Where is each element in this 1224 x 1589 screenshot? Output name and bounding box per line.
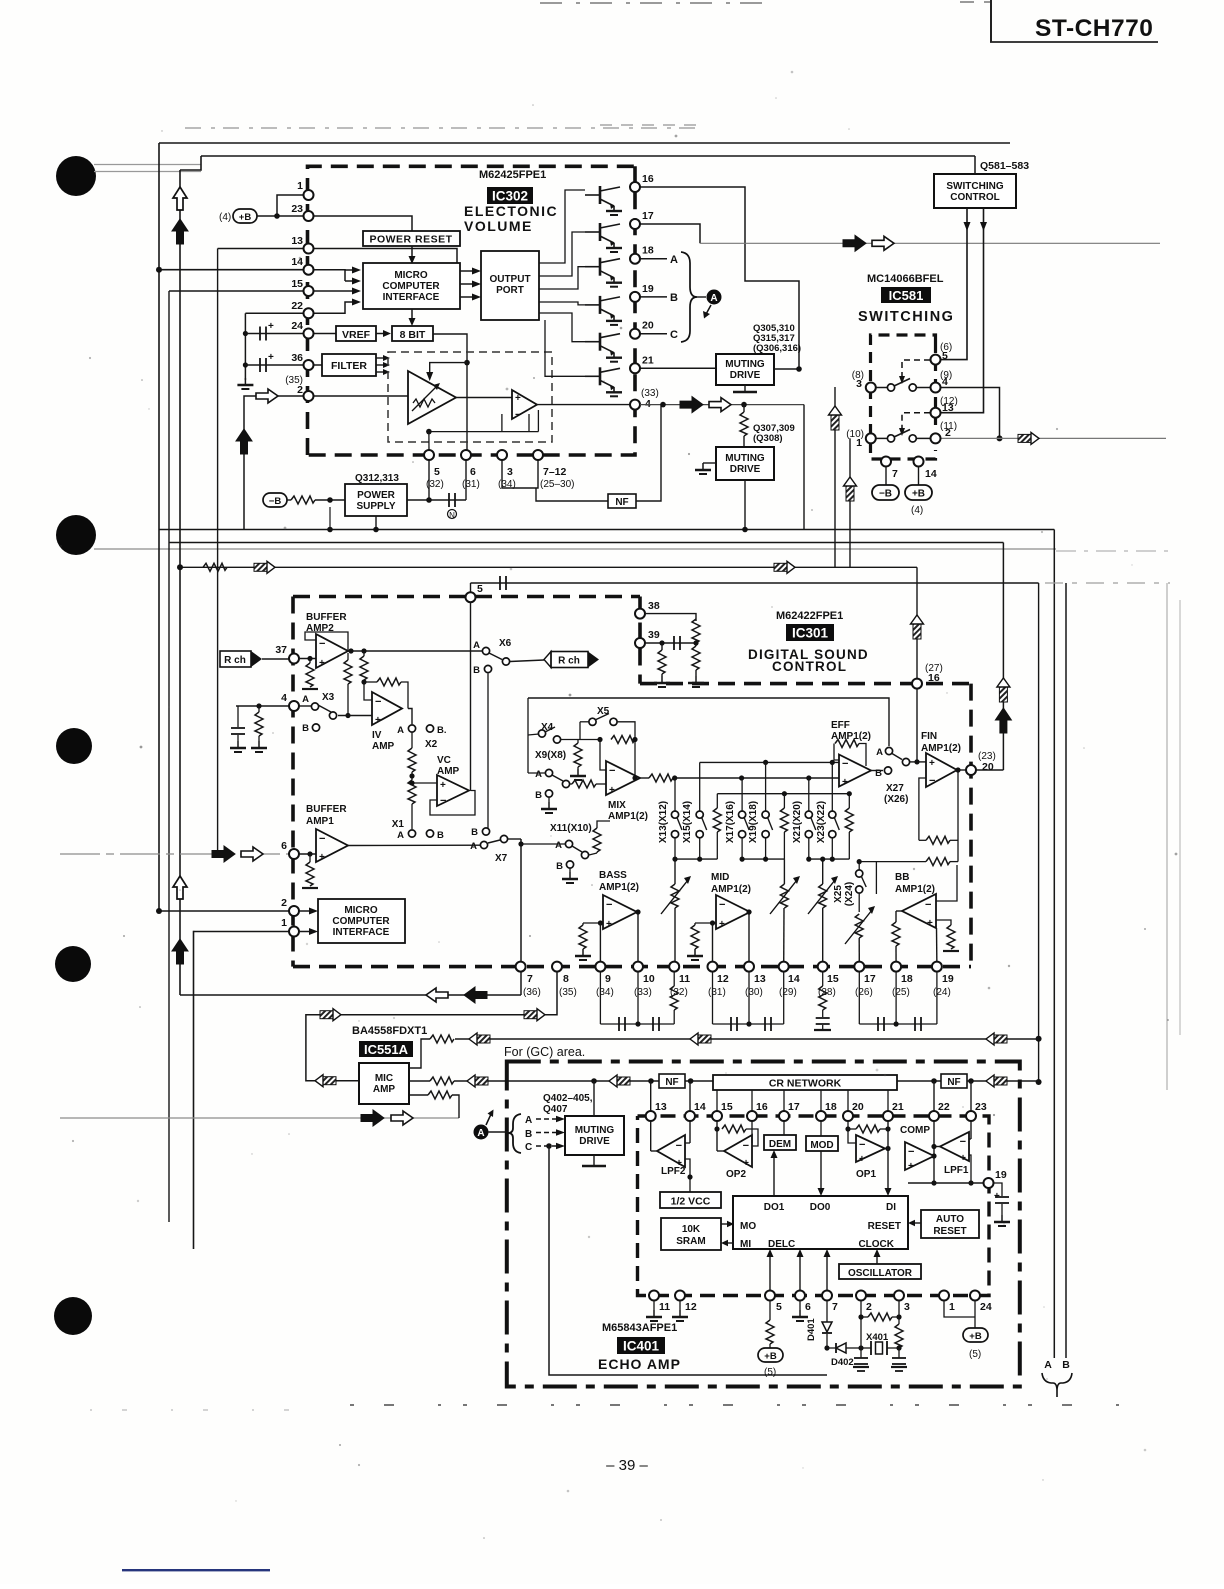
MUTING DRIVE 2 box bbox=[716, 447, 774, 480]
svg-text:7: 7 bbox=[527, 973, 533, 985]
svg-text:+: + bbox=[268, 321, 274, 332]
title rule horizontal bbox=[990, 41, 1158, 43]
svg-text:8 BIT: 8 BIT bbox=[400, 329, 426, 341]
svg-text:24: 24 bbox=[980, 1301, 992, 1313]
svg-text:6: 6 bbox=[805, 1301, 811, 1313]
svg-text:8: 8 bbox=[563, 973, 569, 985]
pin 7-12(25-30) bbox=[533, 450, 543, 460]
svg-text:(35): (35) bbox=[559, 987, 577, 998]
svg-text:Q407: Q407 bbox=[543, 1104, 568, 1115]
pin39 net cap and resistor bbox=[645, 642, 696, 644]
wire amp1 to amp2 bbox=[456, 397, 512, 399]
svg-text:VC: VC bbox=[437, 755, 451, 766]
svg-text:+: + bbox=[515, 393, 521, 404]
power supply to caps wire bbox=[407, 499, 466, 501]
under network group C bbox=[858, 972, 860, 1024]
power supply bottom to bus bbox=[375, 516, 377, 530]
pin 1 wire bbox=[194, 931, 290, 933]
variable resistor to pin 17 bbox=[855, 914, 863, 938]
group bus 2 bbox=[742, 858, 784, 860]
svg-text:LPF1: LPF1 bbox=[944, 1165, 969, 1176]
filter arrows bbox=[376, 357, 383, 359]
EFF amp bbox=[839, 755, 871, 787]
svg-text:MICRO: MICRO bbox=[394, 270, 428, 281]
pin 14 wire right with split arrows bbox=[309, 270, 346, 281]
svg-text:D401: D401 bbox=[806, 1318, 817, 1341]
OP2 output to pin15 bbox=[717, 1150, 724, 1152]
sram arrows bbox=[721, 1223, 727, 1225]
svg-text:7: 7 bbox=[832, 1301, 838, 1313]
AUTO RESET box bbox=[921, 1210, 979, 1238]
svg-text:MID: MID bbox=[711, 872, 729, 883]
svg-text:+: + bbox=[375, 715, 381, 726]
buffer amp2 bbox=[316, 634, 348, 668]
svg-text:BB: BB bbox=[895, 872, 909, 883]
svg-text:IC551A: IC551A bbox=[364, 1042, 409, 1057]
pin 13 wire right into micro bbox=[309, 249, 458, 264]
svg-text:19: 19 bbox=[942, 973, 954, 985]
svg-text:IC302: IC302 bbox=[492, 189, 528, 204]
svg-text:A: A bbox=[710, 293, 717, 304]
svg-text:−: − bbox=[960, 1136, 966, 1148]
EFF feedback resistor bbox=[834, 744, 839, 761]
X7 out to pin7 rail bbox=[508, 838, 521, 840]
svg-text:24: 24 bbox=[291, 320, 303, 332]
group bus 3 bbox=[809, 858, 850, 860]
svg-text:VREF: VREF bbox=[342, 329, 371, 341]
pin 3(34) bbox=[497, 450, 507, 460]
arrow hatched up x917 bbox=[911, 615, 924, 639]
-B oval bbox=[263, 493, 287, 507]
svg-text:+: + bbox=[743, 1158, 749, 1169]
svg-text:+B: +B bbox=[239, 212, 252, 223]
pin 18 wire A bbox=[640, 258, 667, 260]
svg-text:B.: B. bbox=[437, 725, 447, 736]
svg-text:M62422FPE1: M62422FPE1 bbox=[776, 610, 843, 622]
svg-text:38: 38 bbox=[648, 600, 660, 612]
svg-text:– 39 –: – 39 – bbox=[606, 1457, 648, 1474]
svg-text:5: 5 bbox=[477, 583, 483, 595]
under network group B bbox=[712, 972, 714, 1024]
svg-text:D402: D402 bbox=[831, 1357, 854, 1368]
resistor below pin3 bbox=[898, 1300, 900, 1324]
svg-text:X11(X10): X11(X10) bbox=[550, 823, 592, 834]
pin (23)20 bbox=[966, 765, 976, 775]
svg-text:19: 19 bbox=[995, 1169, 1007, 1181]
svg-text:+B: +B bbox=[764, 1351, 777, 1362]
svg-text:9: 9 bbox=[605, 973, 611, 985]
svg-text:DRIVE: DRIVE bbox=[730, 370, 761, 381]
pin 36 to FILTER bbox=[309, 364, 323, 366]
svg-text:MIC: MIC bbox=[375, 1073, 393, 1084]
svg-text:M62425FPE1: M62425FPE1 bbox=[479, 169, 546, 181]
pin14 vertical bbox=[689, 1081, 691, 1143]
svg-text:BASS: BASS bbox=[599, 870, 627, 881]
svg-text:MUTING: MUTING bbox=[575, 1125, 615, 1136]
node A circle bbox=[474, 1125, 489, 1140]
top bypass wire y698 to X27A bbox=[528, 698, 889, 746]
IC401 outer dash-dot box bbox=[507, 1062, 1020, 1387]
svg-text:IC581: IC581 bbox=[889, 288, 924, 303]
MIC AMP box bbox=[359, 1063, 409, 1104]
svg-text:2: 2 bbox=[297, 384, 303, 396]
vertical x804 to bus bbox=[803, 405, 805, 530]
amp1 out to X7 bbox=[348, 844, 480, 846]
svg-text:X9(X8): X9(X8) bbox=[535, 750, 566, 761]
wire bus y529.5 bbox=[159, 529, 1054, 531]
resistor below amp2 + bbox=[309, 659, 311, 664]
svg-text:+: + bbox=[268, 352, 274, 363]
svg-text:COMPUTER: COMPUTER bbox=[332, 916, 390, 927]
switch col X23(X22) bbox=[816, 762, 839, 859]
svg-text:INTERFACE: INTERFACE bbox=[333, 927, 390, 938]
pin 7(36) bbox=[516, 962, 526, 972]
svg-text:OUTPUT: OUTPUT bbox=[489, 274, 530, 285]
feedback resistor chain to X3 bbox=[347, 653, 349, 660]
transistor Q 17 bbox=[585, 223, 622, 252]
svg-text:PORT: PORT bbox=[496, 285, 524, 296]
svg-text:AMP1(2): AMP1(2) bbox=[608, 811, 648, 822]
svg-text:SWITCHING: SWITCHING bbox=[858, 309, 954, 325]
svg-text:10K: 10K bbox=[682, 1224, 701, 1235]
arrow filled up on rail x180 top bbox=[172, 219, 188, 244]
svg-text:AMP1(2): AMP1(2) bbox=[895, 884, 935, 895]
svg-text:16: 16 bbox=[756, 1101, 768, 1113]
svg-text:A: A bbox=[535, 769, 542, 780]
svg-text:5: 5 bbox=[434, 466, 440, 478]
mic amp top feedback loop resistor bbox=[409, 1039, 430, 1068]
svg-text:13: 13 bbox=[291, 235, 303, 247]
switch col X15(X14) bbox=[682, 762, 707, 859]
grey bus y243 bbox=[700, 242, 1160, 244]
svg-text:+: + bbox=[927, 918, 933, 929]
svg-text:(26): (26) bbox=[855, 987, 873, 998]
MIX feedback resistor bbox=[611, 736, 635, 744]
svg-text:COMP: COMP bbox=[900, 1125, 930, 1136]
pin 1 bbox=[866, 433, 876, 443]
svg-text:(4): (4) bbox=[219, 212, 231, 223]
BB feedback bbox=[936, 865, 957, 901]
pin 22 wire right up arrow bbox=[309, 302, 353, 313]
transistor Q 21 bbox=[585, 367, 622, 396]
IC401 black tag bbox=[617, 1337, 665, 1354]
NF box bbox=[608, 494, 636, 508]
wire to MIX minus bbox=[578, 739, 600, 741]
svg-text:B: B bbox=[1062, 1359, 1070, 1371]
IC302 left pins bbox=[304, 190, 314, 200]
svg-text:X19(X18): X19(X18) bbox=[748, 801, 759, 843]
svg-text:A: A bbox=[525, 1115, 532, 1126]
pin 13 wire left bbox=[218, 248, 309, 250]
wire inner frame corner bbox=[180, 156, 201, 170]
OP1 out to pin21 bbox=[885, 1148, 888, 1150]
svg-text:BUFFER: BUFFER bbox=[306, 804, 347, 815]
VC feedback bbox=[430, 791, 475, 816]
svg-text:13: 13 bbox=[942, 402, 954, 414]
svg-text:B: B bbox=[473, 665, 480, 676]
pin4 out net bbox=[640, 404, 804, 406]
svg-text:B: B bbox=[670, 292, 678, 304]
IC302 right pins bbox=[630, 182, 640, 192]
svg-text:DO1: DO1 bbox=[764, 1202, 785, 1213]
svg-text:(36): (36) bbox=[523, 987, 541, 998]
svg-text:MUTING: MUTING bbox=[725, 359, 765, 370]
pin20 into OP1 bbox=[848, 1112, 856, 1143]
punch dot 4 bbox=[55, 946, 91, 982]
grounds pins 11 12 6 bbox=[653, 1300, 655, 1310]
cap rail vertical x245 bbox=[244, 313, 246, 380]
svg-text:BUFFER: BUFFER bbox=[306, 612, 347, 623]
junction dot bbox=[1036, 1079, 1042, 1085]
svg-text:DRIVE: DRIVE bbox=[730, 464, 761, 475]
arrow hatched up on x1003 bbox=[997, 678, 1010, 702]
pin13 vertical bbox=[650, 1081, 652, 1151]
svg-text:MC14066BFEL: MC14066BFEL bbox=[867, 273, 944, 285]
punch dot 1 bbox=[56, 156, 96, 196]
IV out to X2 bbox=[408, 709, 412, 725]
DEM box bbox=[764, 1135, 796, 1150]
bus line lower y793.7 bbox=[717, 793, 849, 795]
pin 16 net bbox=[640, 187, 799, 369]
svg-text:12: 12 bbox=[717, 973, 729, 985]
svg-text:X2: X2 bbox=[425, 739, 438, 750]
bottom pin stubs bbox=[428, 455, 430, 500]
buffer amp2 feedback loop bbox=[305, 632, 348, 651]
svg-text:21: 21 bbox=[642, 354, 654, 366]
svg-text:A: A bbox=[1044, 1359, 1052, 1371]
svg-text:AMP1(2): AMP1(2) bbox=[711, 884, 751, 895]
svg-text:AMP: AMP bbox=[437, 766, 460, 777]
wire outer frame left vertical bbox=[158, 143, 160, 912]
arrow filled up on x1003 bbox=[995, 708, 1011, 733]
svg-text:A: A bbox=[555, 840, 562, 851]
arrow vref to 8bit bbox=[376, 333, 383, 335]
svg-text:+: + bbox=[319, 852, 325, 863]
punch dot 3 bbox=[56, 728, 92, 764]
NF to pin4 line vertical bbox=[636, 405, 661, 501]
IC302 dashed outline bbox=[308, 166, 636, 455]
-B oval bbox=[872, 485, 899, 500]
MOD arrow down to DO0 bbox=[820, 1151, 822, 1190]
pin12 feed bbox=[712, 923, 714, 967]
caps to ground pins 2 3 bbox=[854, 1358, 868, 1364]
capacitor on y583 line bbox=[500, 576, 506, 590]
svg-text:AUTO: AUTO bbox=[936, 1214, 964, 1225]
IC581 black tag bbox=[881, 287, 931, 303]
pin 5(32) bbox=[424, 450, 434, 460]
svg-text:(25–30): (25–30) bbox=[540, 479, 574, 490]
arrow filled up on rail x180 mid bbox=[172, 939, 188, 964]
grey line y855 pin6 feed bbox=[60, 853, 292, 855]
amp lower feedback rail bbox=[429, 431, 539, 433]
svg-text:CONTROL: CONTROL bbox=[950, 192, 999, 203]
grey right margin vertical 2 bbox=[1179, 600, 1181, 1035]
IC581 dashed box bbox=[871, 335, 936, 459]
VREF box bbox=[336, 326, 376, 341]
IC401 top pins bbox=[646, 1111, 656, 1121]
pin21 vertical to DI bbox=[887, 1112, 889, 1190]
MICRO COMPUTER INTERFACE box bbox=[363, 263, 460, 309]
pin 2 wire bbox=[159, 910, 289, 912]
SWITCHING CONTROL box bbox=[934, 174, 1016, 208]
pin 14 stub to +B bbox=[918, 466, 920, 485]
wire top frame to box bbox=[974, 156, 976, 174]
under network pin15 bbox=[822, 972, 824, 986]
circled N symbol bbox=[448, 510, 457, 519]
svg-text:MI: MI bbox=[740, 1239, 751, 1250]
svg-text:AMP: AMP bbox=[372, 741, 395, 752]
svg-text:AMP1(2): AMP1(2) bbox=[599, 882, 639, 893]
svg-text:21: 21 bbox=[892, 1101, 904, 1113]
pin 22 wire left to cap rail bbox=[245, 312, 308, 314]
svg-text:17: 17 bbox=[864, 973, 876, 985]
svg-text:OP1: OP1 bbox=[856, 1169, 876, 1180]
grey right margin vertical 1 bbox=[1166, 583, 1168, 1090]
wire inner frame top bbox=[201, 155, 975, 157]
op-amp A2 bbox=[512, 390, 537, 419]
pin 5 bbox=[931, 355, 941, 365]
arrow open right on y1118 bbox=[391, 1111, 413, 1125]
transistor Q 20 bbox=[585, 333, 622, 362]
pin16 into OP2 bbox=[751, 1112, 753, 1143]
svg-text:X15(X14): X15(X14) bbox=[682, 801, 693, 843]
wire vertical x1003 to FIN pin20 bbox=[1002, 543, 1004, 771]
svg-text:AMP1(2): AMP1(2) bbox=[921, 743, 961, 754]
svg-text:A: A bbox=[670, 254, 678, 266]
svg-text:1: 1 bbox=[281, 917, 287, 929]
wire y995 line with left arrows bbox=[180, 994, 521, 996]
arrow open up on rail x180 top bbox=[173, 187, 187, 210]
switch col X13(X12) bbox=[658, 778, 682, 859]
resistor below amp1 bbox=[309, 854, 311, 862]
svg-text:23: 23 bbox=[975, 1101, 987, 1113]
svg-text:+B: +B bbox=[912, 489, 925, 500]
svg-text:IV: IV bbox=[372, 730, 382, 741]
svg-text:14: 14 bbox=[788, 973, 800, 985]
svg-text:RESET: RESET bbox=[868, 1221, 901, 1232]
BASS out to pin10 bbox=[637, 912, 638, 967]
svg-text:(5): (5) bbox=[764, 1367, 776, 1378]
pin (33)4 bbox=[630, 400, 640, 410]
svg-text:14: 14 bbox=[694, 1101, 706, 1113]
svg-text:NF: NF bbox=[947, 1077, 960, 1088]
MUTING DRIVE box IC401 bbox=[565, 1116, 624, 1155]
svg-text:−: − bbox=[743, 1140, 749, 1152]
svg-text:1: 1 bbox=[856, 437, 862, 449]
FILTER box bbox=[322, 354, 376, 376]
svg-text:(32): (32) bbox=[426, 479, 444, 490]
svg-text:37: 37 bbox=[275, 644, 287, 656]
pin 1 wire bbox=[277, 195, 304, 216]
POWER SUPPLY box bbox=[345, 484, 407, 516]
pin 14 wire left bbox=[159, 269, 309, 271]
svg-text:M65843AFPE1: M65843AFPE1 bbox=[602, 1322, 677, 1334]
svg-text:(29): (29) bbox=[779, 987, 797, 998]
OP1 amp bbox=[856, 1135, 885, 1162]
OUTPUT PORT box bbox=[481, 251, 539, 320]
svg-text:(X24): (X24) bbox=[844, 882, 855, 906]
svg-text:ST-CH770: ST-CH770 bbox=[1035, 15, 1153, 42]
svg-text:4: 4 bbox=[942, 376, 948, 388]
X9 to MIX resistor bbox=[570, 783, 572, 785]
svg-text:12: 12 bbox=[685, 1301, 697, 1313]
arrow micro down to 8bit bbox=[411, 309, 413, 318]
wire vertical x1038.6 down to IC401 bbox=[1038, 583, 1040, 1082]
svg-text:(31): (31) bbox=[462, 479, 480, 490]
svg-text:COMPUTER: COMPUTER bbox=[382, 281, 440, 292]
pin 15 wire bbox=[169, 290, 309, 292]
scan dashes top bbox=[540, 2, 770, 4]
svg-text:INTERFACE: INTERFACE bbox=[383, 292, 440, 303]
svg-text:−: − bbox=[859, 1139, 865, 1151]
svg-text:ECHO AMP: ECHO AMP bbox=[598, 1356, 681, 1372]
svg-text:22: 22 bbox=[291, 300, 303, 312]
svg-text:FILTER: FILTER bbox=[331, 360, 367, 372]
arrow hatched up x835 bbox=[829, 406, 842, 430]
pin 17 net to grey bus bbox=[640, 224, 700, 243]
pin27 vertical into X27 junction bbox=[916, 689, 918, 762]
svg-text:13: 13 bbox=[655, 1101, 667, 1113]
svg-text:2: 2 bbox=[866, 1301, 872, 1313]
switch2 row bbox=[876, 437, 888, 439]
mic amp output resistor y1081 bbox=[409, 1080, 430, 1082]
resistor to muting2 bbox=[743, 405, 745, 412]
MID out to pin13 bbox=[749, 912, 750, 967]
svg-text:(34): (34) bbox=[498, 479, 516, 490]
svg-text:13: 13 bbox=[754, 973, 766, 985]
arrow open up on rail x180 mid bbox=[173, 876, 187, 899]
brace ABC muting bbox=[508, 1114, 521, 1153]
svg-text:23: 23 bbox=[291, 203, 303, 215]
svg-text:−: − bbox=[908, 1146, 914, 1158]
muting2 ground left bbox=[703, 462, 716, 464]
svg-text:(31): (31) bbox=[708, 987, 726, 998]
echo delay big box bbox=[733, 1196, 908, 1249]
arrow power reset to micro bbox=[411, 246, 413, 256]
MICRO COMPUTER INTERFACE box IC301 bbox=[318, 899, 405, 943]
variable resistor to pin 15 bbox=[822, 859, 824, 884]
pin 19 wire B bbox=[640, 296, 667, 298]
BASS amp bbox=[603, 895, 637, 929]
X11 resistor up bbox=[589, 853, 597, 855]
svg-text:DELC: DELC bbox=[768, 1239, 795, 1250]
svg-text:+: + bbox=[606, 919, 612, 930]
svg-text:OP2: OP2 bbox=[726, 1169, 746, 1180]
svg-text:OSCILLATOR: OSCILLATOR bbox=[848, 1268, 913, 1279]
X27 to FIN bbox=[910, 761, 926, 763]
svg-text:18: 18 bbox=[642, 245, 654, 257]
diode D401 bbox=[826, 1300, 828, 1322]
OSCILLATOR box bbox=[839, 1264, 921, 1279]
pins 2-3 resistor bbox=[860, 1300, 862, 1358]
svg-text:X3: X3 bbox=[322, 692, 335, 703]
pins 1 24 +B bbox=[944, 1300, 975, 1317]
svg-text:(25): (25) bbox=[892, 987, 910, 998]
svg-text:X17(X16): X17(X16) bbox=[725, 801, 736, 843]
under network group A bbox=[599, 972, 601, 1024]
svg-text:10: 10 bbox=[643, 973, 655, 985]
muting feed from NF line bbox=[593, 1081, 595, 1116]
svg-text:B: B bbox=[437, 830, 444, 841]
svg-text:A: A bbox=[473, 640, 480, 651]
wire vertical x917 to IC301 pin27 bbox=[916, 567, 918, 683]
R ch input tag bbox=[220, 651, 251, 667]
punch scan line dot2 long grey bbox=[94, 548, 1056, 550]
svg-text:−: − bbox=[375, 696, 381, 708]
IC551A black tag bbox=[359, 1041, 413, 1057]
svg-text:+: + bbox=[440, 780, 446, 791]
resistor chain X2 to X1 bbox=[411, 732, 413, 748]
